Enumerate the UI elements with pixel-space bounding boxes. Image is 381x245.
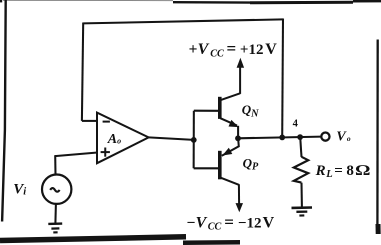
wire source top <box>54 155 56 175</box>
ground (R_L) <box>292 208 313 216</box>
wire output rail <box>238 137 321 139</box>
Q_P emitter arrowhead <box>222 148 232 156</box>
resistor R_L zigzag <box>294 157 308 183</box>
wire op-amp output <box>149 137 194 140</box>
frame top border right segment <box>250 1 353 5</box>
source sine symbol <box>50 188 59 192</box>
frame right border <box>376 40 379 232</box>
svg-text:Vo: Vo <box>336 130 351 145</box>
transistor Q_N collector diagonal <box>220 93 240 100</box>
frame top border faint left segment <box>3 0 173 2</box>
resistor R_L top wire <box>300 137 301 157</box>
wire Q_N base <box>194 110 219 112</box>
frame top border mid segment <box>173 1 250 4</box>
wire Q_P collector vertical <box>238 184 240 204</box>
wire op-amp non-inverting input <box>55 153 98 157</box>
source V_i circle <box>42 175 71 204</box>
transistor Q_P collector diagonal <box>220 178 239 185</box>
wire source bottom <box>54 204 57 224</box>
svg-text:+VCC=+12V: +VCC=+12V <box>189 39 278 60</box>
ground (source) <box>48 224 62 233</box>
frame top border far-right segment <box>353 0 381 3</box>
node 4 junction dot <box>297 134 303 140</box>
wire Q_N emitter drop <box>237 126 239 139</box>
svg-text:−VCC=−12V: −VCC=−12V <box>187 212 275 232</box>
frame left border <box>2 0 6 222</box>
wire op-amp inverting input <box>82 120 98 122</box>
svg-text:QP: QP <box>243 155 259 172</box>
wire Q_N collector vertical <box>239 67 241 94</box>
Q_N emitter arrowhead <box>229 120 239 127</box>
svg-text:QN: QN <box>242 102 259 119</box>
wire Q_P base <box>194 167 219 169</box>
wire feedback right vertical <box>281 19 284 138</box>
node base-bus junction dot <box>191 137 197 143</box>
node emitter junction dot <box>235 135 241 141</box>
svg-text:RL=8: RL=8 <box>315 163 354 180</box>
wire feedback left vertical <box>82 23 83 121</box>
transistor Q_P base bar <box>218 151 222 180</box>
frame top-left corner mark <box>0 0 2 2</box>
frame bottom border segment 1 <box>0 237 186 241</box>
wire base bus vertical <box>193 111 195 169</box>
frame bottom border segment 2 <box>183 240 240 245</box>
svg-text:Ω: Ω <box>355 162 370 179</box>
-Vcc arrowhead <box>236 203 244 212</box>
+Vcc arrowhead <box>237 58 245 68</box>
transistor Q_P emitter diagonal <box>222 140 239 156</box>
svg-text:4: 4 <box>293 118 299 129</box>
resistor R_L bottom wire <box>300 183 302 207</box>
frame right border bottom blob <box>376 224 381 234</box>
op-amp plus sign <box>101 148 110 157</box>
transistor Q_N base bar <box>218 97 222 119</box>
transistor Q_N emitter diagonal <box>220 118 237 125</box>
svg-text:Vi: Vi <box>13 181 26 197</box>
op-amp minus sign <box>103 121 110 123</box>
op-amp U1 triangle <box>97 113 149 164</box>
wire feedback top <box>83 19 283 23</box>
terminal V_o circle <box>321 133 329 141</box>
node feedback junction dot <box>279 135 285 141</box>
